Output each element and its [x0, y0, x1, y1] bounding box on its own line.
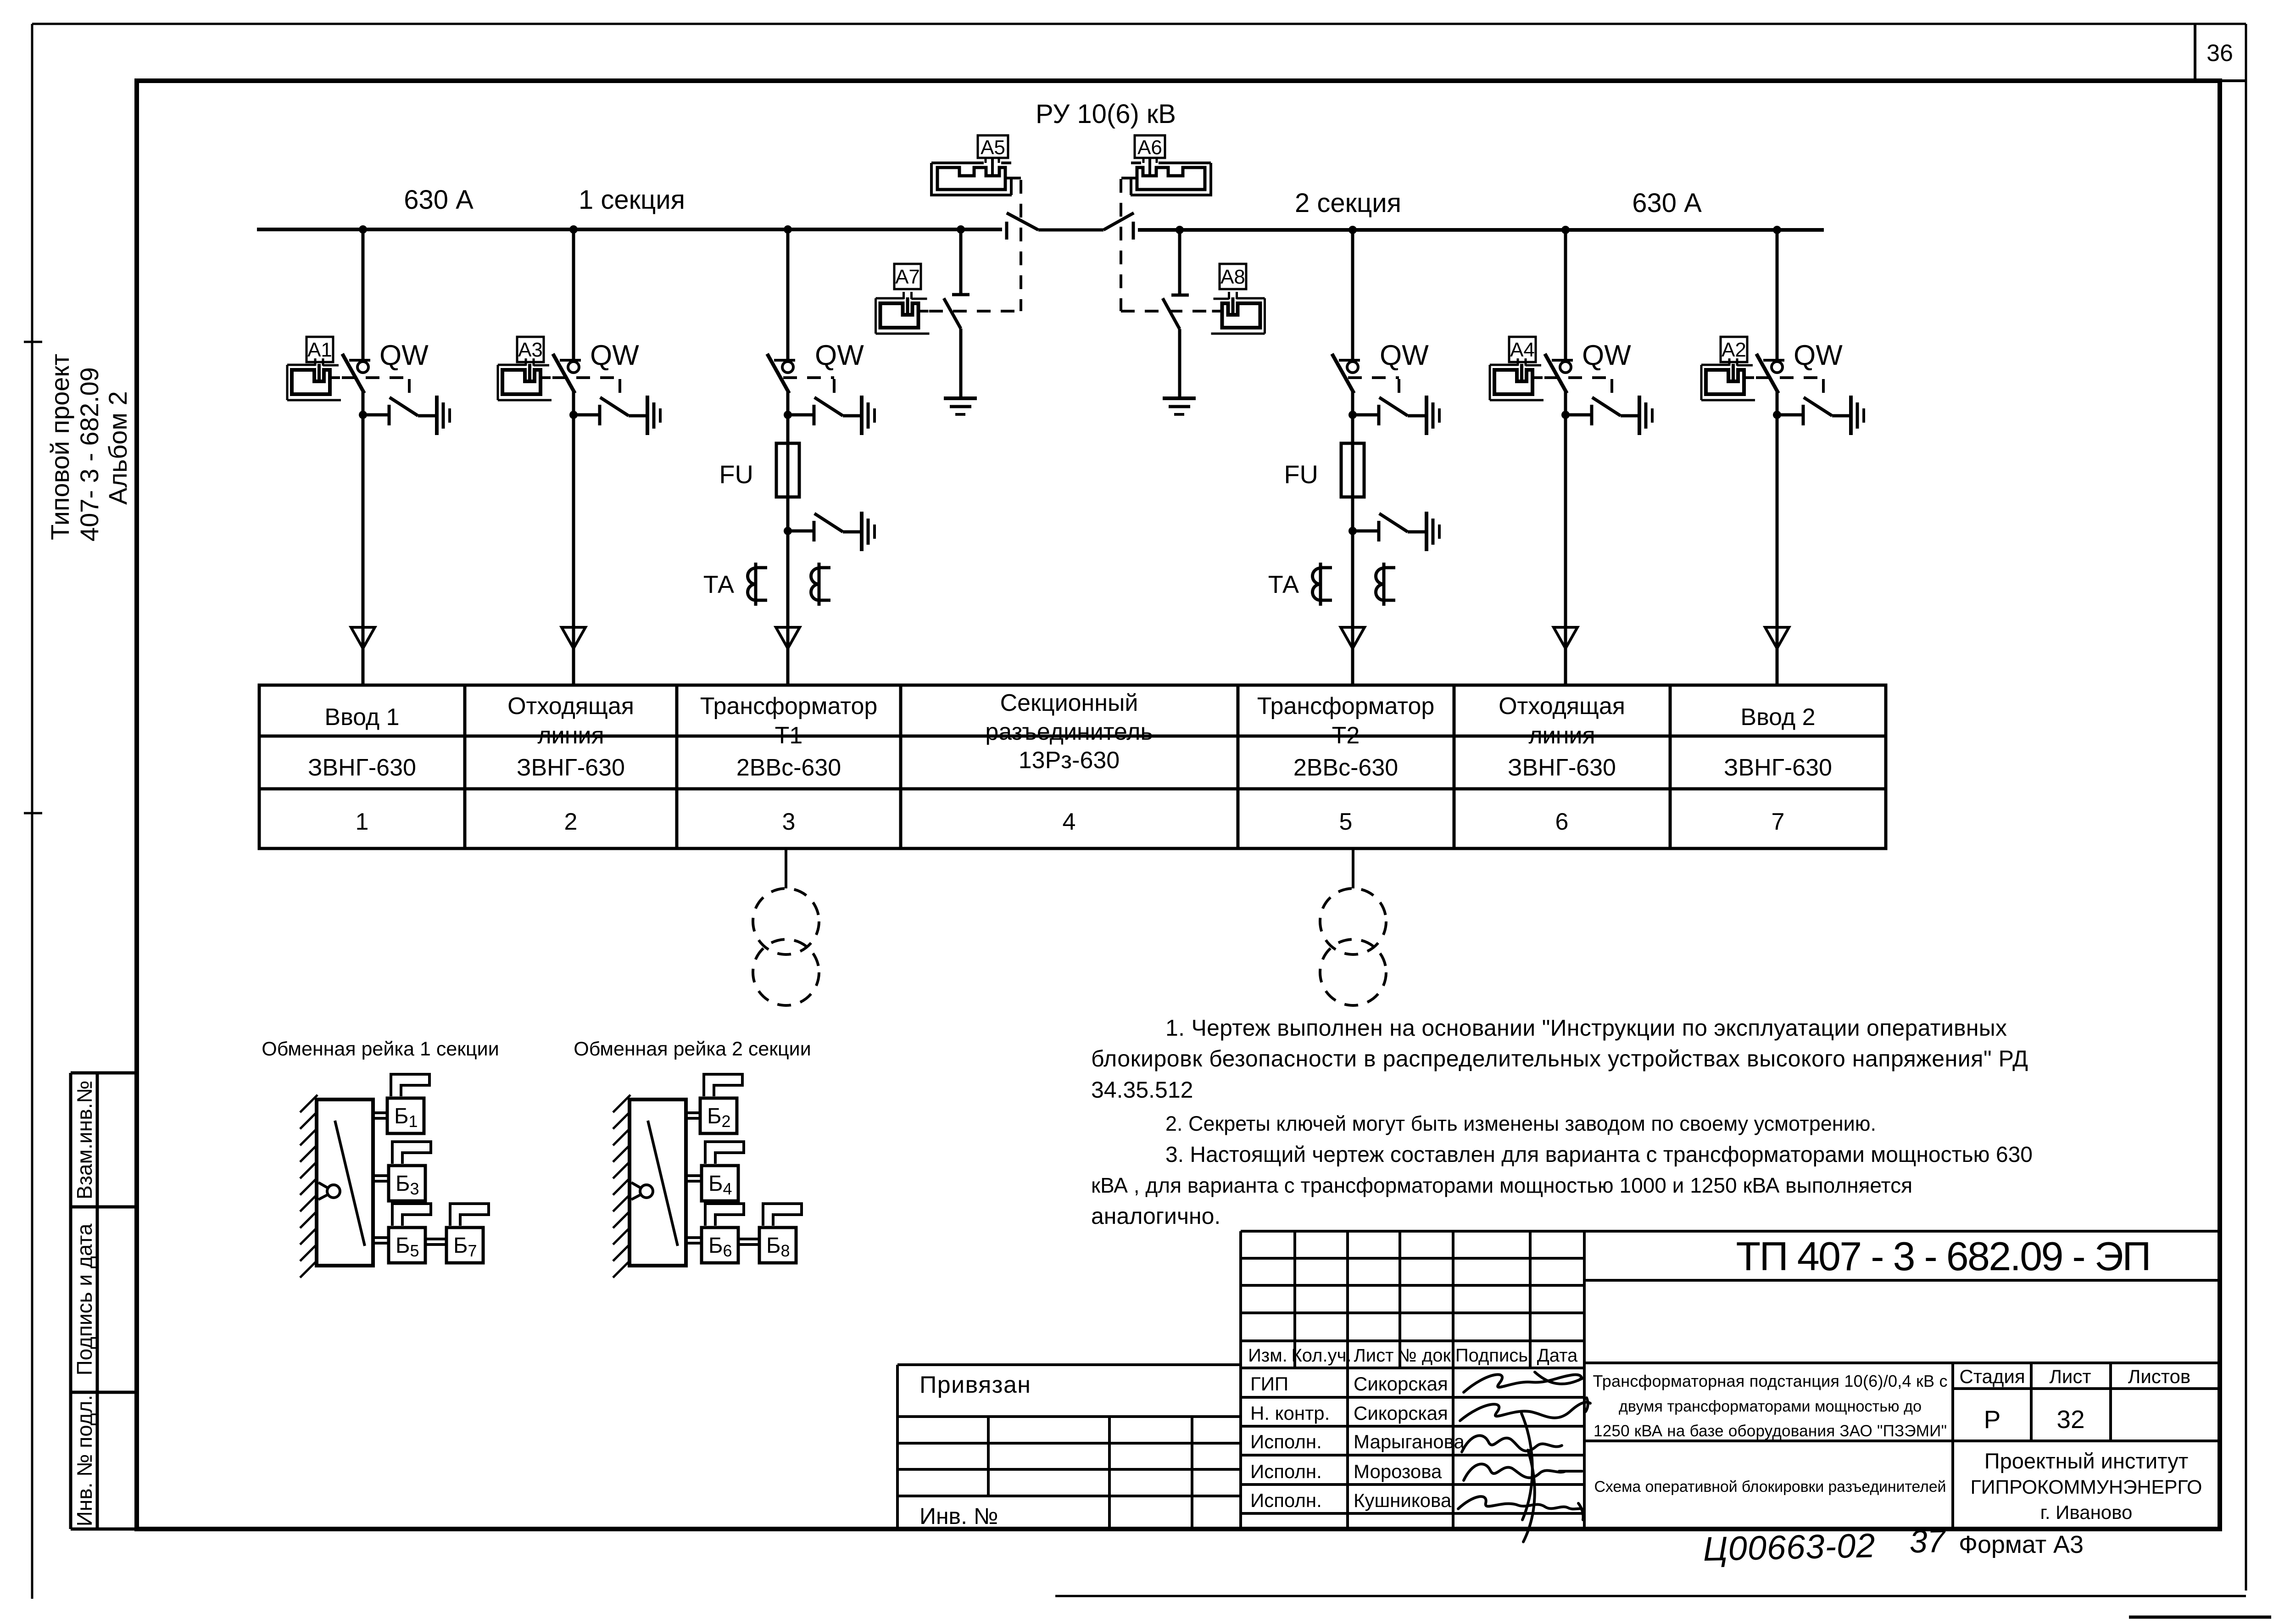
svg-text:Кол.уч.: Кол.уч.: [1291, 1345, 1351, 1366]
institute name block: [1971, 1449, 2202, 1523]
svg-text:№ док.: № док.: [1397, 1345, 1456, 1366]
node bay 5 bus tap: [1348, 226, 1357, 234]
disconnector QW bay 6: [1545, 354, 1573, 393]
key box А2: [1721, 337, 1747, 362]
svg-text:А8: А8: [1220, 266, 1245, 288]
svg-text:А6: А6: [1137, 136, 1162, 159]
svg-text:Исполн.: Исполн.: [1250, 1490, 1322, 1511]
key lock А8: [1211, 292, 1265, 334]
svg-text:Кушникова: Кушникова: [1354, 1490, 1452, 1511]
svg-text:разъединитель: разъединитель: [985, 719, 1153, 745]
svg-text:FU: FU: [1284, 460, 1318, 489]
wire to transformers T1 T2: [786, 848, 1353, 888]
svg-text:1250 кВА на базе оборудования: 1250 кВА на базе оборудования ЗАО "ПЗЭМИ…: [1594, 1422, 1947, 1440]
svg-text:Взам.инв.№: Взам.инв.№: [72, 1080, 96, 1199]
svg-text:линия: линия: [1528, 722, 1595, 749]
node bay 3 earthing tap: [784, 411, 792, 419]
node bay 2 bus tap: [569, 225, 578, 234]
current transformer TA bay 3 right: [811, 563, 831, 606]
svg-text:6: 6: [1555, 809, 1569, 835]
svg-text:А4: А4: [1510, 339, 1535, 361]
sheet number box 36: [2195, 24, 2246, 81]
ground section 1 side: [944, 396, 977, 400]
wire bus section 2: [1138, 228, 1824, 232]
svg-text:13Рз-630: 13Рз-630: [1019, 747, 1120, 774]
interlock link dashed bay 7: [1756, 378, 1823, 397]
svg-text:Стадия: Стадия: [1959, 1366, 2025, 1387]
title block header texts: [1248, 1345, 1578, 1366]
svg-text:630 А: 630 А: [404, 185, 474, 215]
key box А8: [1220, 264, 1246, 289]
svg-text:Т2: Т2: [1332, 722, 1360, 749]
earthing switch with ground, bay 7: [1777, 396, 1864, 435]
svg-text:ЗВНГ-630: ЗВНГ-630: [1724, 754, 1832, 781]
node bay 1 earthing tap: [359, 411, 367, 419]
svg-text:Лист: Лист: [2049, 1366, 2091, 1387]
disconnector QW bay 2: [553, 354, 581, 393]
svg-text:QW: QW: [815, 340, 864, 371]
svg-text:А1: А1: [307, 339, 332, 361]
svg-text:Ц00663-02: Ц00663-02: [1703, 1526, 1876, 1568]
svg-text:QW: QW: [1794, 340, 1843, 371]
node bay 7 earthing tap: [1773, 411, 1781, 419]
node bay 2 earthing tap: [569, 411, 578, 419]
interlock link dashed bay 2: [552, 378, 620, 397]
interlock link dashed sectional: [929, 179, 1211, 311]
disconnector QW bay 7: [1756, 354, 1784, 393]
arrow outgoing bay 3: [776, 627, 800, 648]
svg-text:Схема оперативной блокировки р: Схема оперативной блокировки разъедините…: [1594, 1478, 1946, 1496]
svg-text:Типовой проект: Типовой проект: [45, 354, 74, 540]
earthing switch with ground, bay 6: [1566, 396, 1652, 435]
disconnector QW bay 3: [767, 354, 795, 393]
svg-text:Инв. №: Инв. №: [919, 1503, 998, 1529]
svg-text:Секционный: Секционный: [1000, 690, 1138, 716]
page edge shadow bottom right: [2129, 1616, 2271, 1619]
node bay 1 bus tap: [359, 225, 367, 234]
signatures: [1458, 1372, 1590, 1542]
node bay 5 lower earthing tap: [1348, 527, 1357, 535]
current transformer TA bay 3 left: [748, 563, 768, 606]
fold marks left border: [24, 342, 42, 813]
key box А6: [1135, 135, 1165, 158]
key box А1: [306, 337, 333, 362]
svg-text:Дата: Дата: [1537, 1345, 1578, 1366]
svg-text:1 секция: 1 секция: [579, 185, 685, 215]
svg-text:Отходящая: Отходящая: [1499, 693, 1625, 720]
interlock link dashed bay 1: [342, 378, 409, 397]
svg-text:2ВВс-630: 2ВВс-630: [1293, 754, 1398, 781]
node bay 5 earthing tap: [1348, 411, 1357, 419]
node section 1 earthing tap: [957, 225, 965, 234]
svg-text:Трансформатор: Трансформатор: [1257, 693, 1435, 720]
arrow outgoing bay 2: [562, 627, 585, 648]
svg-text:блокировк безопасности в распр: блокировк безопасности в распределительн…: [1091, 1046, 2028, 1072]
svg-text:Марыганова: Марыганова: [1354, 1431, 1465, 1452]
svg-text:ЗВНГ-630: ЗВНГ-630: [517, 754, 625, 781]
svg-text:2ВВс-630: 2ВВс-630: [736, 754, 841, 781]
exchange rack 1 assembly: [300, 1074, 489, 1278]
wire bay 3 feeder: [786, 229, 790, 684]
svg-text:Исполн.: Исполн.: [1250, 1431, 1322, 1452]
svg-text:Листов: Листов: [2128, 1366, 2190, 1387]
svg-text:ГИП: ГИП: [1250, 1373, 1288, 1395]
svg-text:Трансформаторная подстанция 10: Трансформаторная подстанция 10(6)/0,4 кВ…: [1593, 1372, 1948, 1390]
svg-text:Сикорская: Сикорская: [1354, 1402, 1448, 1424]
svg-text:37: 37: [1909, 1523, 1947, 1560]
transformer T1 (dashed): [753, 888, 819, 1005]
node bay 3 lower earthing tap: [784, 527, 792, 535]
key lock А4: [1490, 358, 1543, 400]
wire bay 6 feeder: [1564, 230, 1567, 684]
svg-text:А2: А2: [1722, 339, 1746, 361]
svg-text:Трансформатор: Трансформатор: [700, 693, 878, 720]
current transformer TA bay 5 left: [1313, 563, 1332, 606]
svg-text:ТП 407 - 3 - 682.09 - ЭП: ТП 407 - 3 - 682.09 - ЭП: [1736, 1233, 2151, 1279]
key box А3: [517, 337, 544, 362]
svg-text:QW: QW: [1582, 340, 1631, 371]
earthing switch section 1 side: [944, 229, 970, 397]
interlock link dashed bay 3: [783, 378, 834, 397]
svg-text:Ввод 2: Ввод 2: [1740, 704, 1815, 731]
node bay 6 bus tap: [1561, 226, 1570, 234]
svg-text:кВА , для варианта с трансфор: кВА , для варианта с трансформаторами мо…: [1091, 1173, 1912, 1197]
wire bus section 1: [257, 228, 1002, 231]
svg-text:Инв. № подл.: Инв. № подл.: [72, 1395, 96, 1527]
notes text block: [1091, 1015, 2033, 1229]
svg-text:Р: Р: [1984, 1405, 2001, 1434]
svg-text:двумя трансформаторами мощност: двумя трансформаторами мощностью до: [1619, 1398, 1922, 1415]
svg-text:Морозова: Морозова: [1354, 1461, 1442, 1482]
earthing switch with ground, bay 1: [363, 396, 450, 435]
svg-text:3: 3: [782, 809, 796, 835]
svg-text:2 секция: 2 секция: [1295, 188, 1401, 218]
earthing switch with ground, bay 3: [788, 396, 875, 435]
svg-text:Отходящая: Отходящая: [507, 693, 634, 720]
key box А4: [1509, 337, 1536, 362]
transformer T2 (dashed): [1320, 888, 1386, 1005]
svg-text:Сикорская: Сикорская: [1354, 1373, 1448, 1395]
earthing switch with ground, bay 2: [574, 396, 660, 435]
svg-text:Обменная рейка 2 секции: Обменная рейка 2 секции: [574, 1038, 811, 1060]
svg-text:ЗВНГ-630: ЗВНГ-630: [1508, 754, 1616, 781]
earthing switch with ground, bay 5: [1353, 396, 1439, 435]
key lock А5: [931, 157, 1021, 195]
ground section 2 side: [1163, 396, 1196, 400]
svg-text:1: 1: [356, 809, 369, 835]
key lock А1: [287, 358, 341, 400]
title block grid: [897, 1231, 2220, 1529]
node bay 3 bus tap: [784, 225, 792, 234]
svg-text:4: 4: [1063, 809, 1076, 835]
exchange rack 2 assembly: [613, 1074, 802, 1278]
title block staff rows: [1250, 1373, 1465, 1511]
fuse FU bay 5: [1341, 443, 1364, 497]
earthing switch with ground, bay 3 lower: [788, 512, 875, 551]
earthing switch with ground, bay 5 lower: [1353, 512, 1439, 551]
node bay 7 bus tap: [1773, 226, 1781, 234]
svg-text:линия: линия: [537, 722, 604, 749]
svg-text:2. Секреты ключей могут быть и: 2. Секреты ключей могут быть изменены за…: [1165, 1112, 1876, 1135]
svg-text:Т1: Т1: [775, 722, 803, 749]
svg-text:5: 5: [1339, 809, 1353, 835]
svg-text:А7: А7: [895, 266, 920, 288]
svg-text:Формат А3: Формат А3: [1959, 1531, 2084, 1558]
svg-text:Исполн.: Исполн.: [1250, 1461, 1322, 1482]
svg-text:3. Настоящий чертеж составлен: 3. Настоящий чертеж составлен для вариан…: [1165, 1143, 2033, 1167]
svg-text:Альбом 2: Альбом 2: [103, 391, 132, 505]
svg-text:РУ 10(6) кВ: РУ 10(6) кВ: [1036, 99, 1176, 129]
svg-text:А5: А5: [981, 136, 1005, 159]
key box А5: [978, 135, 1008, 158]
key lock А7: [876, 292, 930, 334]
svg-text:630 А: 630 А: [1632, 188, 1702, 218]
arrow outgoing bay 7: [1765, 627, 1789, 648]
project description texts: [1593, 1372, 1948, 1496]
svg-text:Изм.: Изм.: [1248, 1345, 1287, 1366]
svg-text:7: 7: [1772, 809, 1785, 835]
wire bay 5 feeder: [1351, 230, 1354, 684]
disconnector QW bay 1: [342, 354, 370, 393]
svg-text:Подпись и дата: Подпись и дата: [72, 1223, 96, 1375]
rotated sheet title Tipovoy proekt: [45, 354, 132, 541]
svg-text:Подпись: Подпись: [1455, 1345, 1528, 1366]
key lock А6: [1121, 157, 1211, 195]
svg-text:аналогично.: аналогично.: [1091, 1203, 1220, 1229]
current transformer TA bay 5 right: [1376, 563, 1396, 606]
earthing switch section 2 side: [1163, 230, 1189, 397]
key box А7: [894, 264, 921, 289]
svg-text:Проектный институт: Проектный институт: [1984, 1449, 2188, 1473]
svg-text:36: 36: [2207, 40, 2233, 67]
svg-text:Привязан: Привязан: [919, 1372, 1031, 1398]
svg-text:Лист: Лист: [1354, 1345, 1394, 1366]
svg-text:ГИПРОКОММУНЭНЕРГО: ГИПРОКОММУНЭНЕРГО: [1971, 1476, 2202, 1498]
key lock А3: [498, 358, 552, 400]
wire bay 7 feeder: [1776, 230, 1779, 684]
svg-text:ТА: ТА: [1268, 571, 1299, 598]
svg-text:FU: FU: [719, 460, 753, 489]
svg-text:QW: QW: [1380, 340, 1429, 371]
svg-text:34.35.512: 34.35.512: [1091, 1077, 1193, 1103]
svg-text:Обменная рейка 1 секции: Обменная рейка 1 секции: [262, 1038, 499, 1060]
bay description table grid: [259, 685, 1886, 848]
wire bay 2 feeder: [572, 229, 575, 684]
interlock link dashed bay 6: [1544, 378, 1612, 397]
svg-text:2: 2: [564, 809, 578, 835]
arrow outgoing bay 1: [351, 627, 375, 648]
disconnector QW bay 5: [1332, 354, 1360, 393]
svg-text:ТА: ТА: [703, 571, 734, 598]
svg-text:QW: QW: [379, 340, 429, 371]
node bay 6 earthing tap: [1561, 411, 1570, 419]
fuse FU bay 3: [776, 443, 799, 497]
svg-text:А3: А3: [518, 339, 543, 361]
svg-text:г. Иваново: г. Иваново: [2040, 1501, 2133, 1523]
svg-text:ЗВНГ-630: ЗВНГ-630: [308, 754, 416, 781]
arrow outgoing bay 5: [1341, 627, 1365, 648]
interlock link dashed bay 5: [1348, 378, 1399, 397]
node section 2 earthing tap: [1176, 226, 1184, 234]
sectional disconnector 13Рз-630 blades: [1007, 213, 1134, 240]
arrow outgoing bay 6: [1554, 627, 1577, 648]
rotated labels Vzam inv / Podpis i data / Inv no podl: [72, 1080, 96, 1526]
svg-text:1. Чертеж выполнен на основани: 1. Чертеж выполнен на основании "Инструк…: [1165, 1015, 2007, 1041]
stadia list listov headers: [1959, 1366, 2190, 1387]
wire bay 1 feeder: [362, 229, 365, 684]
svg-text:QW: QW: [590, 340, 639, 371]
svg-text:Н. контр.: Н. контр.: [1250, 1402, 1330, 1424]
key lock А2: [1701, 358, 1755, 400]
left margin label stack cells: [71, 1073, 137, 1529]
handwritten inventory number: [1703, 1523, 1947, 1568]
svg-text:32: 32: [2056, 1405, 2084, 1434]
svg-text:407- 3 - 682.09: 407- 3 - 682.09: [75, 367, 104, 541]
svg-text:Ввод 1: Ввод 1: [324, 704, 399, 731]
